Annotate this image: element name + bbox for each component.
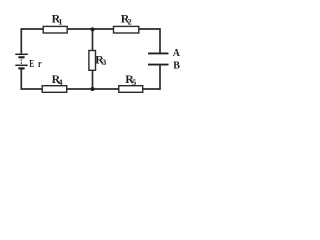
wire left lower [20, 68, 22, 90]
wire left upper [20, 28, 22, 54]
svg-text:A: A [173, 48, 181, 59]
wire top [21, 28, 160, 30]
wire right lower [159, 65, 161, 90]
resistor R5 [119, 86, 143, 93]
wire middle branch [92, 29, 94, 89]
svg-text:1: 1 [58, 18, 62, 27]
svg-text:r: r [38, 59, 42, 70]
node junction bottom [91, 87, 95, 91]
svg-text:E: E [29, 59, 34, 70]
svg-text:3: 3 [102, 58, 106, 67]
svg-text:B: B [173, 60, 180, 71]
capacitor plate A [148, 52, 169, 54]
svg-text:5: 5 [132, 78, 136, 87]
battery E r [15, 54, 27, 68]
resistor R3 [89, 51, 96, 71]
resistor R4 [42, 86, 66, 93]
node junction top [91, 27, 95, 31]
wire bottom [21, 88, 160, 90]
resistor R1 [43, 26, 67, 33]
capacitor plate B [148, 64, 169, 66]
wire right upper [159, 28, 161, 53]
svg-text:4: 4 [58, 78, 62, 87]
svg-text:2: 2 [128, 18, 132, 27]
resistor R2 [114, 26, 139, 33]
